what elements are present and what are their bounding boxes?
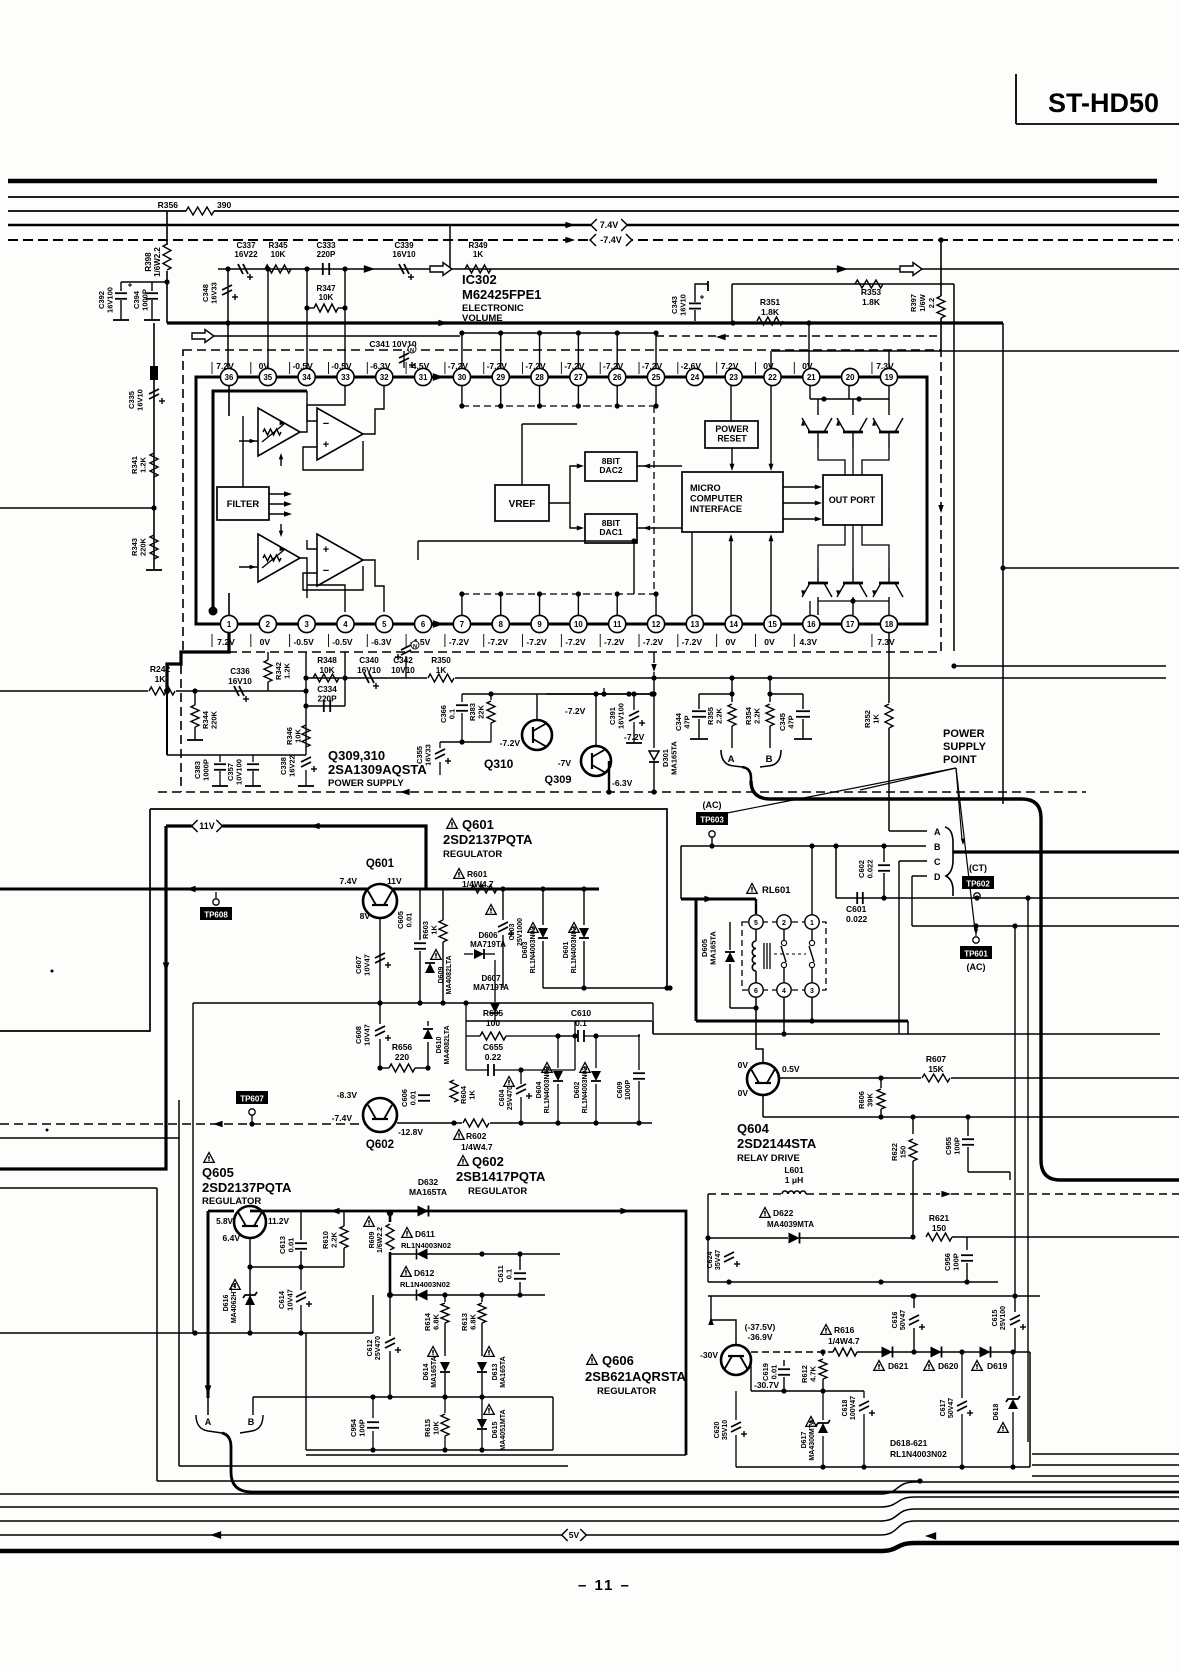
diode D604: [536, 1033, 563, 1123]
D606 MA719TA: [464, 931, 506, 959]
svg-text:A: A: [205, 1417, 212, 1427]
wire y1467: [736, 1352, 1030, 1470]
svg-text:0.01: 0.01: [770, 1365, 779, 1380]
bottom thick bus: [0, 1543, 1179, 1551]
bottom bus line 2: [0, 1497, 1179, 1507]
svg-text:RELAY DRIVE: RELAY DRIVE: [737, 1153, 800, 1164]
svg-text:50V47: 50V47: [948, 1398, 955, 1418]
Q606 titles: [585, 1353, 687, 1397]
IC302 top pin row: [212, 361, 898, 386]
capacitor C612: [367, 1295, 401, 1397]
svg-text:-7.2V: -7.2V: [449, 637, 470, 647]
R605 loop: [463, 1000, 575, 1070]
svg-text:-7.2V: -7.2V: [526, 637, 547, 647]
svg-text:5V: 5V: [569, 1530, 580, 1540]
svg-text:R351: R351: [760, 297, 781, 307]
Q601 transistor: [340, 858, 402, 921]
pins 21 20 19 wires: [810, 386, 889, 399]
capacitor C617: [940, 1352, 973, 1467]
svg-text:15K: 15K: [928, 1064, 944, 1074]
op-amp B2: [317, 534, 363, 586]
svg-text:0.01: 0.01: [409, 1091, 418, 1106]
svg-text:R609: R609: [369, 1232, 376, 1249]
VREF wires: [549, 464, 584, 531]
svg-text:0V: 0V: [763, 361, 774, 371]
IC302 bottom pin row: [212, 615, 898, 647]
svg-text:D632: D632: [418, 1177, 439, 1187]
svg-text:0.22: 0.22: [485, 1052, 502, 1062]
svg-text:6.8K: 6.8K: [469, 1313, 478, 1329]
op-amp B2 wires: [303, 540, 384, 612]
svg-text:1/4W4.7: 1/4W4.7: [461, 1142, 493, 1152]
wire y666 right: [951, 663, 1166, 668]
svg-text:23: 23: [729, 373, 738, 382]
svg-text:4.7K: 4.7K: [809, 1365, 818, 1381]
svg-text:D612: D612: [414, 1268, 435, 1278]
svg-text:-7.2V: -7.2V: [500, 738, 521, 748]
wire y926: [912, 876, 1179, 929]
5V label: [562, 1528, 587, 1542]
svg-text:2: 2: [266, 620, 271, 629]
svg-text:D614: D614: [423, 1364, 430, 1381]
wire Q605 emitter: [249, 1238, 251, 1333]
svg-text:COMPUTER: COMPUTER: [690, 494, 743, 504]
svg-text:C616: C616: [892, 1312, 899, 1329]
resistor R397: [909, 237, 945, 350]
svg-text:0.1: 0.1: [448, 709, 457, 719]
capacitor C611: [496, 1254, 526, 1295]
svg-text:R616: R616: [834, 1325, 855, 1335]
svg-text:6.4V: 6.4V: [223, 1233, 241, 1243]
svg-text:1: 1: [227, 620, 232, 629]
diode D621: [874, 1347, 909, 1372]
svg-text:MA165TA: MA165TA: [670, 741, 679, 775]
wire x1003 vertical: [1002, 323, 1004, 804]
diode D602: [574, 1033, 601, 1123]
capacitor C605: [396, 889, 426, 1002]
wire y269: [218, 268, 1179, 270]
box close y1466: [179, 1455, 568, 1466]
svg-text:1K: 1K: [473, 250, 483, 259]
MCI to OUT PORT arrows: [783, 485, 822, 522]
svg-text:1 μH: 1 μH: [785, 1175, 803, 1185]
svg-text:R353: R353: [861, 287, 882, 297]
svg-text:D613: D613: [492, 1364, 499, 1381]
bottom bus line 1: [0, 1482, 1179, 1494]
svg-text:2SB621AQRSTA: 2SB621AQRSTA: [585, 1369, 687, 1384]
svg-text:27: 27: [574, 373, 583, 382]
vertical x195: [192, 1003, 194, 1333]
svg-text:MA165TA: MA165TA: [709, 931, 718, 965]
resistor R345: [265, 241, 291, 273]
svg-text:1.8K: 1.8K: [862, 297, 881, 307]
svg-text:16V10: 16V10: [392, 250, 416, 259]
IC top dashed rail: [459, 386, 658, 409]
diode D612: [387, 1267, 545, 1301]
MCI bottom wires: [692, 532, 773, 615]
wire C606 branch: [403, 1091, 405, 1123]
svg-text:22K: 22K: [477, 705, 486, 719]
wire y988: [543, 985, 673, 990]
svg-text:39K: 39K: [866, 1093, 875, 1107]
svg-text:9: 9: [537, 620, 542, 629]
title frame line: [1016, 74, 1179, 124]
svg-text:25V470: 25V470: [507, 1086, 514, 1110]
svg-text:25: 25: [652, 373, 661, 382]
capacitor C337: [234, 241, 258, 280]
11V thick loop: [166, 823, 426, 889]
bottom arrow 5V line: [210, 1531, 936, 1540]
bus line 2: [8, 196, 1179, 198]
svg-text:22: 22: [768, 373, 777, 382]
svg-text:MA165TA: MA165TA: [409, 1187, 447, 1197]
open arrow y269: [430, 263, 452, 276]
relay box: [742, 922, 826, 990]
IC output transistors top: [801, 396, 903, 448]
svg-text:7.3V: 7.3V: [877, 637, 895, 647]
D618-621 text: [890, 1438, 947, 1459]
svg-text:31: 31: [419, 373, 428, 382]
svg-text:0V: 0V: [738, 1060, 749, 1070]
svg-text:A: A: [728, 754, 735, 765]
capacitor C613: [278, 1211, 307, 1267]
POWER RESET box: [705, 421, 758, 448]
svg-text:10K: 10K: [271, 250, 286, 259]
svg-text:C610: C610: [571, 1008, 592, 1018]
capacitor C955: [944, 1114, 1010, 1180]
POWER SUPPLY POINT text: [943, 728, 987, 766]
dashed arrow wire y336: [656, 334, 941, 341]
svg-text:R601: R601: [467, 869, 488, 879]
Q601 titles: [443, 817, 533, 860]
svg-text:Q601: Q601: [462, 817, 494, 832]
bus line 3: [8, 210, 1179, 212]
IC output transistors bottom: [801, 567, 903, 615]
capacitor C366: [439, 694, 468, 742]
wire Q604 base left: [719, 1079, 747, 1117]
svg-text:1/6W2.2: 1/6W2.2: [377, 1227, 384, 1253]
svg-text:-7.2V: -7.2V: [565, 637, 586, 647]
diode D301: [649, 652, 679, 795]
svg-text:D610: D610: [436, 1037, 443, 1054]
wire y1296: [708, 1282, 1040, 1299]
svg-text:RL1N4003N02: RL1N4003N02: [400, 1280, 450, 1289]
wire y1333: [0, 1330, 373, 1335]
lower box left: [0, 809, 150, 1031]
capacitor C601: [846, 892, 868, 924]
svg-text:B: B: [248, 1417, 255, 1427]
capacitor C624: [707, 1238, 740, 1282]
svg-text:1.8K: 1.8K: [761, 307, 780, 317]
svg-text:11: 11: [613, 620, 622, 629]
svg-text:B: B: [766, 754, 773, 765]
svg-text:C615: C615: [992, 1310, 999, 1327]
svg-text:(AC): (AC): [703, 800, 722, 810]
relay top wires: [756, 846, 812, 915]
C334 loop: [306, 652, 348, 712]
svg-text:24: 24: [690, 373, 699, 382]
capacitor C616: [892, 1293, 925, 1352]
svg-text:C655: C655: [483, 1042, 504, 1052]
svg-text:16V33: 16V33: [424, 744, 433, 766]
svg-text:-7.2V: -7.2V: [604, 637, 625, 647]
svg-text:R356: R356: [158, 200, 179, 210]
L601: [708, 1165, 1179, 1197]
svg-text:220P: 220P: [317, 250, 336, 259]
resistor R615: [423, 1397, 449, 1450]
diode D610: [423, 1021, 451, 1071]
bottom bus extra right 1: [1032, 1453, 1179, 1455]
svg-text:R398: R398: [144, 252, 153, 272]
svg-text:390: 390: [217, 200, 231, 210]
svg-text:3: 3: [304, 620, 309, 629]
wire q601 down: [379, 918, 381, 1002]
svg-text:-7.2V: -7.2V: [643, 637, 664, 647]
MICRO COMPUTER INTERFACE box: [682, 472, 783, 532]
svg-text:0.01: 0.01: [287, 1238, 296, 1253]
svg-text:2.2K: 2.2K: [330, 1231, 339, 1247]
svg-text:2SA1309AQSTA: 2SA1309AQSTA: [328, 762, 427, 777]
svg-text:2SD2137PQTA: 2SD2137PQTA: [443, 832, 533, 847]
svg-text:MA165TA: MA165TA: [500, 1356, 507, 1387]
diode D614: [423, 1347, 450, 1398]
bus line thick top: [8, 179, 1157, 184]
svg-text:R349: R349: [468, 241, 488, 250]
svg-text:25V470: 25V470: [375, 1336, 382, 1360]
svg-text:D620: D620: [938, 1361, 959, 1371]
Q310 rail: [440, 739, 491, 744]
resistor R622: [890, 1114, 917, 1239]
capacitor C383: [193, 755, 228, 786]
svg-text:0.022: 0.022: [846, 914, 868, 924]
Q604 transistor: [738, 1060, 800, 1098]
svg-text:C617: C617: [940, 1400, 947, 1417]
left rail x154: [146, 323, 162, 570]
left entries y1188: [0, 1188, 157, 1481]
svg-text:C336: C336: [230, 667, 250, 676]
svg-text:4.3V: 4.3V: [800, 637, 818, 647]
svg-text:5: 5: [754, 920, 758, 927]
diode D619: [972, 1347, 1008, 1372]
capacitor C338: [279, 755, 317, 786]
bold pin1 wire: [164, 633, 229, 694]
svg-text:100P: 100P: [358, 1419, 367, 1437]
svg-text:VOLUME: VOLUME: [462, 313, 503, 324]
op-amp A1 wires: [239, 391, 307, 466]
top transistor collector wires: [818, 448, 889, 475]
svg-text:4: 4: [782, 988, 786, 995]
svg-text:MA4300MTA: MA4300MTA: [809, 1419, 816, 1460]
svg-text:10V10: 10V10: [391, 666, 415, 675]
relay coil: [752, 929, 770, 983]
Q606 transistor: [700, 1322, 779, 1390]
svg-text:MA4082LTA: MA4082LTA: [444, 1025, 451, 1064]
8BIT DAC2 box: [585, 452, 637, 481]
op-amp A1 (variable): [258, 408, 300, 456]
wire y351 right: [772, 350, 1179, 352]
svg-text:RL1N4003N02: RL1N4003N02: [544, 1067, 551, 1114]
svg-text:10V47: 10V47: [286, 1289, 295, 1311]
resistor R614: [423, 1295, 449, 1356]
svg-text:Q602: Q602: [472, 1154, 504, 1169]
diode D618: [993, 1352, 1020, 1467]
svg-text:D621: D621: [888, 1361, 909, 1371]
diode D616: [223, 1280, 257, 1334]
svg-text:POWER: POWER: [715, 424, 749, 434]
VREF box: [495, 485, 549, 521]
svg-text:1/4W4.7: 1/4W4.7: [828, 1336, 860, 1346]
resistor R347 loop: [304, 269, 347, 368]
TP602: [962, 863, 994, 901]
svg-text:−: −: [323, 565, 329, 577]
svg-text:16V100: 16V100: [617, 703, 626, 729]
svg-text:MA4082LTA: MA4082LTA: [446, 955, 453, 994]
vertical x450 top: [449, 225, 451, 269]
svg-text:0V: 0V: [738, 1088, 749, 1098]
svg-text:TP607: TP607: [240, 1095, 264, 1104]
capacitor C954: [349, 1397, 379, 1450]
wire y568 right: [1000, 565, 1179, 570]
C383 C357 rail: [167, 754, 306, 756]
wire B row: [681, 843, 926, 848]
svg-text:D607: D607: [481, 974, 501, 983]
D607 MA719TA: [473, 960, 509, 1021]
svg-text:220P: 220P: [317, 695, 337, 704]
capacitor C610: [560, 1008, 640, 1042]
RL601 label: [747, 884, 791, 897]
OUT PORT box: [823, 475, 882, 525]
bottom bus line 3: [0, 1509, 1179, 1521]
resistor R242: [148, 664, 176, 697]
diode D617: [801, 1388, 830, 1467]
diode D601: [563, 889, 589, 988]
svg-text:– 11 –: – 11 –: [578, 1577, 631, 1594]
FILTER feed: [242, 416, 244, 487]
svg-text:C601: C601: [846, 904, 867, 914]
svg-text:8V: 8V: [360, 911, 371, 921]
wire y1078: [780, 1075, 1179, 1080]
svg-text:1K: 1K: [436, 666, 447, 675]
svg-text:2SD2144STA: 2SD2144STA: [737, 1136, 817, 1151]
svg-text:2.2: 2.2: [927, 298, 936, 308]
svg-text:C334: C334: [317, 685, 337, 694]
svg-text:16V22: 16V22: [234, 250, 258, 259]
svg-text:C603: C603: [509, 924, 516, 941]
op-amp A2: [317, 408, 363, 460]
svg-text:35: 35: [263, 373, 272, 382]
left speck: [46, 970, 54, 1132]
svg-text:RL1N4003N02: RL1N4003N02: [890, 1449, 947, 1459]
svg-text:30: 30: [458, 373, 467, 382]
svg-text:−: −: [323, 418, 329, 430]
svg-text:220K: 220K: [139, 537, 148, 556]
svg-text:1000P: 1000P: [141, 289, 150, 311]
bus line 4 (7.4V): [8, 224, 1179, 226]
vertical x179: [178, 1138, 180, 1466]
svg-text:16V10: 16V10: [136, 389, 145, 411]
svg-text:1/6W: 1/6W: [918, 293, 927, 311]
svg-text:REGULATOR: REGULATOR: [468, 1186, 527, 1197]
diode D615: [477, 1397, 507, 1451]
resistor R350: [427, 656, 455, 684]
resistor R603: [421, 889, 447, 1002]
svg-text:-0.5V: -0.5V: [292, 361, 313, 371]
svg-text:1000P: 1000P: [625, 1080, 632, 1101]
B wire up: [252, 1397, 254, 1415]
svg-text:1.2K: 1.2K: [283, 662, 292, 678]
svg-text:100: 100: [486, 1018, 500, 1028]
svg-text:11.2V: 11.2V: [268, 1217, 289, 1226]
DAC to MCI wires: [637, 464, 682, 531]
resistor R612: [800, 1352, 827, 1391]
svg-text:R656: R656: [392, 1042, 413, 1052]
svg-text:N: N: [413, 644, 417, 650]
svg-text:TP603: TP603: [700, 816, 724, 825]
Q606 top wire: [708, 1296, 736, 1345]
svg-text:B: B: [934, 842, 941, 852]
thick wire x166 down: [0, 826, 169, 1169]
svg-text:C: C: [934, 857, 941, 867]
svg-text:50V47: 50V47: [900, 1310, 907, 1330]
resistor R343: [130, 535, 158, 559]
diode D613: [477, 1347, 507, 1398]
thick rail y1211: [208, 1208, 686, 1455]
svg-text:Q606: Q606: [602, 1353, 634, 1368]
svg-text:D: D: [934, 872, 941, 882]
svg-text:25V100: 25V100: [1000, 1306, 1007, 1330]
dashed rail y1124: [0, 1121, 365, 1128]
svg-text:36: 36: [225, 373, 234, 382]
page number: [578, 1577, 631, 1594]
FILTER arrows: [269, 491, 292, 517]
svg-text:Q601: Q601: [366, 858, 395, 870]
Q602 titles: [456, 1154, 546, 1197]
thick wire to TP area: [751, 781, 1179, 1180]
svg-text:RL601: RL601: [762, 885, 791, 896]
wire to diodes: [857, 1349, 1030, 1354]
svg-text:D615: D615: [492, 1422, 499, 1439]
resistor R383: [468, 694, 495, 742]
pin22 to MCI: [769, 323, 889, 471]
svg-text:R602: R602: [466, 1131, 487, 1141]
svg-text:L601: L601: [784, 1165, 804, 1175]
C row: [899, 857, 941, 867]
svg-text:16V10: 16V10: [357, 666, 381, 675]
svg-text:6: 6: [421, 620, 426, 629]
svg-text:16V33: 16V33: [210, 282, 219, 304]
junction dots y323: [730, 320, 811, 325]
resistor R621: [925, 1213, 954, 1243]
resistor R607: [921, 1054, 951, 1084]
svg-text:C620: C620: [714, 1422, 721, 1439]
svg-text:(-37.5V): (-37.5V): [745, 1322, 776, 1332]
resistor R341: [130, 453, 158, 477]
svg-text:6: 6: [754, 988, 758, 995]
Q310 transistor: [484, 706, 586, 771]
svg-text:-7.4V: -7.4V: [600, 235, 622, 245]
resistor R352: [863, 633, 893, 831]
svg-text:TP602: TP602: [966, 880, 990, 889]
svg-text:32: 32: [380, 373, 389, 382]
svg-text:20: 20: [846, 373, 855, 382]
resistor R354: [744, 675, 774, 748]
svg-text:+: +: [323, 439, 329, 451]
wire y1391: [751, 1360, 823, 1394]
11V label: [192, 819, 223, 833]
svg-text:13: 13: [690, 620, 699, 629]
svg-text:-6.3V: -6.3V: [371, 637, 392, 647]
svg-text:29: 29: [496, 373, 505, 382]
